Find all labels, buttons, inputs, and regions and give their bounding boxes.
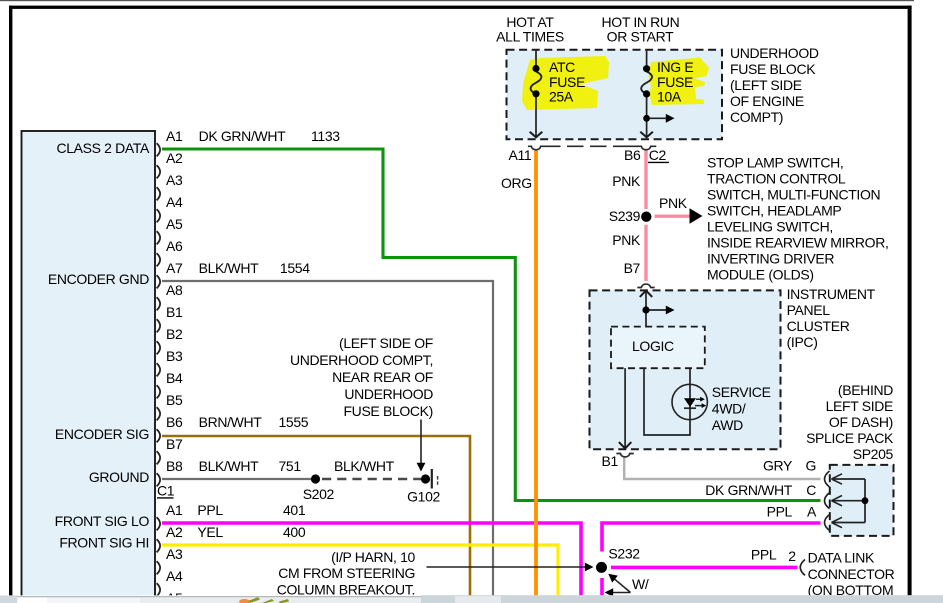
svg-text:B8: B8: [166, 458, 183, 474]
svg-text:DK GRN/WHT: DK GRN/WHT: [705, 482, 793, 498]
svg-text:751: 751: [279, 458, 302, 474]
svg-text:A8: A8: [166, 282, 183, 298]
svg-text:AWD: AWD: [712, 417, 743, 433]
svg-text:DATA LINK: DATA LINK: [808, 550, 875, 566]
svg-text:BRN/WHT: BRN/WHT: [199, 414, 263, 430]
svg-text:B3: B3: [166, 348, 183, 364]
svg-text:B7: B7: [624, 260, 641, 276]
svg-text:ALL TIMES: ALL TIMES: [496, 29, 564, 45]
svg-text:A1: A1: [166, 502, 183, 518]
svg-text:CLUSTER: CLUSTER: [787, 318, 850, 334]
svg-text:OF ENGINE: OF ENGINE: [730, 93, 804, 109]
svg-text:B1: B1: [166, 304, 183, 320]
svg-text:A2: A2: [166, 524, 183, 540]
svg-text:COMPT): COMPT): [730, 109, 783, 125]
svg-text:S202: S202: [303, 486, 335, 502]
svg-text:A2: A2: [166, 150, 183, 166]
svg-text:COLUMN BREAKOUT.: COLUMN BREAKOUT.: [277, 581, 415, 597]
svg-text:SPLICE PACK: SPLICE PACK: [806, 430, 894, 446]
svg-text:2: 2: [788, 548, 796, 564]
svg-text:B6: B6: [166, 414, 183, 430]
svg-text:PNK: PNK: [612, 232, 641, 248]
svg-text:BLK/WHT: BLK/WHT: [199, 458, 260, 474]
svg-text:1554: 1554: [280, 260, 310, 276]
svg-text:(IPC): (IPC): [787, 334, 818, 350]
svg-text:A4: A4: [166, 568, 183, 584]
svg-text:A3: A3: [166, 172, 183, 188]
svg-text:B7: B7: [166, 436, 183, 452]
svg-text:G: G: [805, 458, 816, 474]
svg-text:A7: A7: [166, 260, 183, 276]
svg-text:ENCODER SIG: ENCODER SIG: [55, 426, 149, 442]
svg-text:FUSE: FUSE: [657, 74, 693, 90]
svg-text:LEFT SIDE: LEFT SIDE: [826, 398, 893, 414]
svg-text:(LEFT SIDE: (LEFT SIDE: [730, 77, 802, 93]
svg-text:ATC: ATC: [549, 59, 575, 75]
svg-text:A6: A6: [166, 238, 183, 254]
svg-text:UNDERHOOD: UNDERHOOD: [730, 45, 819, 61]
svg-text:FUSE BLOCK: FUSE BLOCK: [730, 61, 816, 77]
svg-text:A: A: [807, 504, 817, 520]
svg-text:B4: B4: [166, 370, 183, 386]
svg-text:A3: A3: [166, 546, 183, 562]
svg-text:LOGIC: LOGIC: [632, 338, 674, 354]
svg-text:A1: A1: [166, 128, 183, 144]
svg-text:UNDERHOOD: UNDERHOOD: [344, 386, 433, 402]
svg-text:PANEL: PANEL: [787, 302, 831, 318]
svg-text:INSIDE REARVIEW MIRROR,: INSIDE REARVIEW MIRROR,: [707, 235, 889, 251]
svg-text:FUSE: FUSE: [549, 74, 585, 90]
svg-text:C: C: [806, 482, 816, 498]
svg-text:MODULE (OLDS): MODULE (OLDS): [707, 267, 814, 283]
svg-text:SWITCH, HEADLAMP: SWITCH, HEADLAMP: [707, 203, 841, 219]
svg-text:25A: 25A: [549, 89, 574, 105]
svg-text:4WD/: 4WD/: [712, 401, 746, 417]
svg-text:ENCODER GND: ENCODER GND: [48, 271, 149, 287]
svg-text:(I/P HARN, 10: (I/P HARN, 10: [331, 549, 415, 565]
svg-text:INVERTING DRIVER: INVERTING DRIVER: [707, 251, 834, 267]
svg-text:B6: B6: [624, 147, 641, 163]
svg-text:(LEFT SIDE OF: (LEFT SIDE OF: [339, 335, 433, 351]
svg-text:G102: G102: [407, 488, 440, 504]
svg-text:S232: S232: [608, 546, 640, 562]
svg-text:SWITCH, MULTI-FUNCTION: SWITCH, MULTI-FUNCTION: [707, 187, 880, 203]
svg-text:401: 401: [283, 502, 306, 518]
svg-text:B2: B2: [166, 326, 183, 342]
svg-text:PPL: PPL: [767, 504, 793, 520]
svg-text:UNDERHOOD COMPT,: UNDERHOOD COMPT,: [290, 352, 433, 368]
svg-text:1133: 1133: [311, 128, 340, 144]
svg-text:TRACTION CONTROL: TRACTION CONTROL: [707, 171, 846, 187]
svg-text:OF DASH): OF DASH): [829, 414, 893, 430]
svg-text:STOP LAMP SWITCH,: STOP LAMP SWITCH,: [707, 155, 843, 171]
svg-text:SP205: SP205: [853, 446, 894, 462]
svg-text:CM FROM STEERING: CM FROM STEERING: [278, 565, 415, 581]
svg-text:PNK: PNK: [659, 195, 688, 211]
svg-text:CONNECTOR: CONNECTOR: [808, 566, 895, 582]
svg-text:(BEHIND: (BEHIND: [838, 382, 893, 398]
svg-text:ORG: ORG: [501, 175, 532, 191]
svg-text:OR START: OR START: [607, 29, 674, 45]
svg-text:FUSE BLOCK): FUSE BLOCK): [343, 403, 433, 419]
svg-text:CLASS 2 DATA: CLASS 2 DATA: [56, 140, 150, 156]
svg-text:B5: B5: [166, 392, 183, 408]
svg-text:1555: 1555: [279, 414, 309, 430]
svg-text:C1: C1: [157, 483, 175, 499]
svg-text:BLK/WHT: BLK/WHT: [334, 458, 395, 474]
svg-text:A5: A5: [166, 216, 183, 232]
svg-text:S239: S239: [609, 208, 641, 224]
svg-text:GRY: GRY: [763, 458, 793, 474]
svg-text:10A: 10A: [657, 89, 682, 105]
svg-text:B1: B1: [602, 453, 619, 469]
svg-text:FRONT SIG HI: FRONT SIG HI: [59, 535, 149, 551]
svg-text:A4: A4: [166, 194, 183, 210]
svg-text:A11: A11: [509, 147, 532, 163]
svg-text:C2: C2: [649, 147, 667, 163]
svg-text:YEL: YEL: [197, 524, 223, 540]
svg-text:GROUND: GROUND: [89, 469, 149, 485]
svg-text:W/: W/: [632, 576, 649, 592]
svg-text:INSTRUMENT: INSTRUMENT: [787, 286, 876, 302]
svg-text:PPL: PPL: [751, 547, 777, 563]
svg-text:LEVELING SWITCH,: LEVELING SWITCH,: [707, 219, 833, 235]
svg-text:FRONT SIG LO: FRONT SIG LO: [55, 513, 150, 529]
svg-text:SERVICE: SERVICE: [712, 384, 771, 400]
svg-text:NEAR REAR OF: NEAR REAR OF: [332, 369, 433, 385]
svg-text:BLK/WHT: BLK/WHT: [199, 260, 260, 276]
svg-text:PNK: PNK: [612, 173, 641, 189]
svg-text:PPL: PPL: [197, 502, 223, 518]
svg-text:ING E: ING E: [657, 59, 693, 75]
svg-text:DK GRN/WHT: DK GRN/WHT: [199, 128, 287, 144]
svg-text:400: 400: [283, 524, 306, 540]
